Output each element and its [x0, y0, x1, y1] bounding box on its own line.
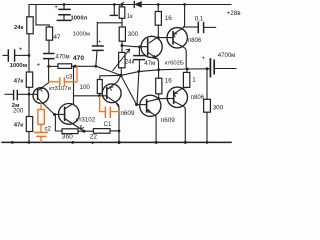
wire diagonal to pot junction	[96, 66, 121, 75]
svg-text:300: 300	[213, 104, 224, 111]
svg-text:470м: 470м	[56, 54, 70, 60]
wire sloping output	[121, 69, 207, 76]
capacitor 0.1	[185, 26, 198, 28]
wire left column	[28, 5, 30, 143]
node junction output pot	[119, 74, 122, 77]
svg-text:47к: 47к	[14, 122, 24, 128]
capacitor 1000m input top	[3, 54, 8, 56]
capacitor 2m input	[5, 93, 13, 95]
wire to 470	[49, 65, 58, 67]
svg-text:1000м: 1000м	[10, 63, 27, 69]
resistor R 1	[183, 72, 189, 87]
wire 470 right	[72, 65, 96, 67]
resistor R 300 upper	[119, 27, 125, 41]
svg-text:47: 47	[54, 34, 61, 41]
svg-text:0,1: 0,1	[195, 16, 204, 23]
svg-text:47к: 47к	[14, 78, 24, 84]
transistor Q p806 top	[167, 28, 187, 48]
svg-text:360: 360	[62, 134, 73, 141]
node junction left col	[28, 54, 31, 57]
svg-text:16: 16	[165, 78, 173, 85]
resistor R 47	[46, 27, 52, 40]
wire emitter drop kt3107	[48, 66, 50, 82]
resistor R 16 upper	[157, 3, 160, 6]
wire 1k frame	[97, 22, 122, 24]
resistor R 16 lower	[158, 70, 160, 78]
svg-text:47м: 47м	[144, 60, 155, 67]
node dot c3 tap	[74, 65, 77, 68]
wire 47 to cap	[48, 40, 50, 53]
resistor orange emitter	[40, 104, 42, 110]
svg-text:п806: п806	[188, 38, 202, 44]
wire diagonal to p609 base	[121, 75, 137, 104]
svg-text:+: +	[54, 4, 58, 11]
resistor R 47k upper	[26, 72, 32, 87]
node junction 470m	[47, 65, 50, 68]
svg-text:100: 100	[80, 84, 91, 91]
svg-text:с3: с3	[66, 73, 73, 80]
capacitor c3	[49, 81, 59, 83]
resistor R 47k lower	[26, 117, 32, 132]
transistor Q kt3102	[59, 104, 80, 125]
orange added components	[35, 66, 119, 142]
svg-text:24к: 24к	[14, 25, 24, 31]
svg-text:300: 300	[128, 31, 139, 38]
svg-text:1000л: 1000л	[71, 16, 88, 22]
capacitor 4700m output	[210, 59, 214, 77]
svg-text:п609: п609	[121, 110, 135, 117]
potentiometer 24k	[121, 46, 123, 53]
transistor Q kt602B	[141, 36, 162, 57]
capacitor C1	[100, 97, 105, 112]
svg-text:1к: 1к	[127, 13, 133, 20]
svg-text:24к: 24к	[125, 58, 135, 65]
resistor R 470	[58, 64, 72, 69]
resistor R 22	[93, 129, 110, 134]
svg-text:16: 16	[165, 15, 173, 22]
svg-text:С1: С1	[104, 121, 112, 128]
node dot 1000m tap	[94, 65, 97, 68]
resistor R 24k	[27, 17, 33, 34]
svg-text:с2: с2	[45, 126, 52, 133]
wire base kt602	[122, 46, 148, 47]
capacitor 1000m rail	[63, 3, 66, 6]
capacitor c2	[35, 132, 48, 136]
wire top rail +28V	[29, 4, 231, 6]
resistor R 360	[62, 129, 78, 134]
svg-text:4700м: 4700м	[218, 53, 235, 59]
wire bottom rail	[2, 141, 231, 143]
resistor R 300 lower	[206, 69, 208, 100]
transistor Q p806 bottom	[167, 87, 187, 107]
transistor Q p609 big	[140, 95, 161, 116]
capacitor 470m	[44, 54, 54, 59]
capacitor 1000m mid	[96, 23, 98, 46]
diode VD top rail	[133, 2, 135, 8]
node base p806 top	[157, 36, 160, 39]
svg-text:1: 1	[192, 77, 196, 84]
node base p609 big	[135, 103, 138, 106]
svg-text:1000м: 1000м	[73, 32, 90, 38]
resistor R 1k	[121, 3, 124, 6]
svg-text:470: 470	[73, 55, 84, 62]
svg-text:кт602Б: кт602Б	[165, 61, 184, 67]
svg-text:200: 200	[13, 108, 24, 115]
svg-text:п609: п609	[161, 117, 175, 124]
svg-text:п806: п806	[191, 95, 205, 101]
capacitor plate stub at rail	[113, 3, 116, 6]
svg-text:кт3107и: кт3107и	[49, 86, 71, 92]
svg-text:+: +	[201, 55, 205, 62]
svg-text:кт3102: кт3102	[76, 116, 96, 123]
capacitor 47m	[138, 47, 140, 55]
trimmer tick 1k	[120, 2, 124, 5]
wire base drop kt3102 to 360	[55, 114, 62, 131]
wire vertical x119	[116, 103, 119, 142]
resistor R 100	[97, 80, 102, 94]
transistor Q kt3107	[33, 88, 49, 104]
transistor Q p609 small	[102, 84, 121, 103]
node junction base kt602	[121, 44, 124, 47]
svg-text:22: 22	[90, 134, 98, 141]
svg-text:+28в: +28в	[227, 10, 242, 17]
node junction 22/col	[118, 130, 121, 133]
wire drop x36	[36, 5, 49, 28]
node base kt3102	[53, 113, 56, 116]
wire kt3102 collector column	[73, 66, 75, 104]
svg-text:+: +	[37, 62, 41, 69]
svg-text:+: +	[19, 46, 23, 53]
node input junction	[28, 93, 31, 96]
